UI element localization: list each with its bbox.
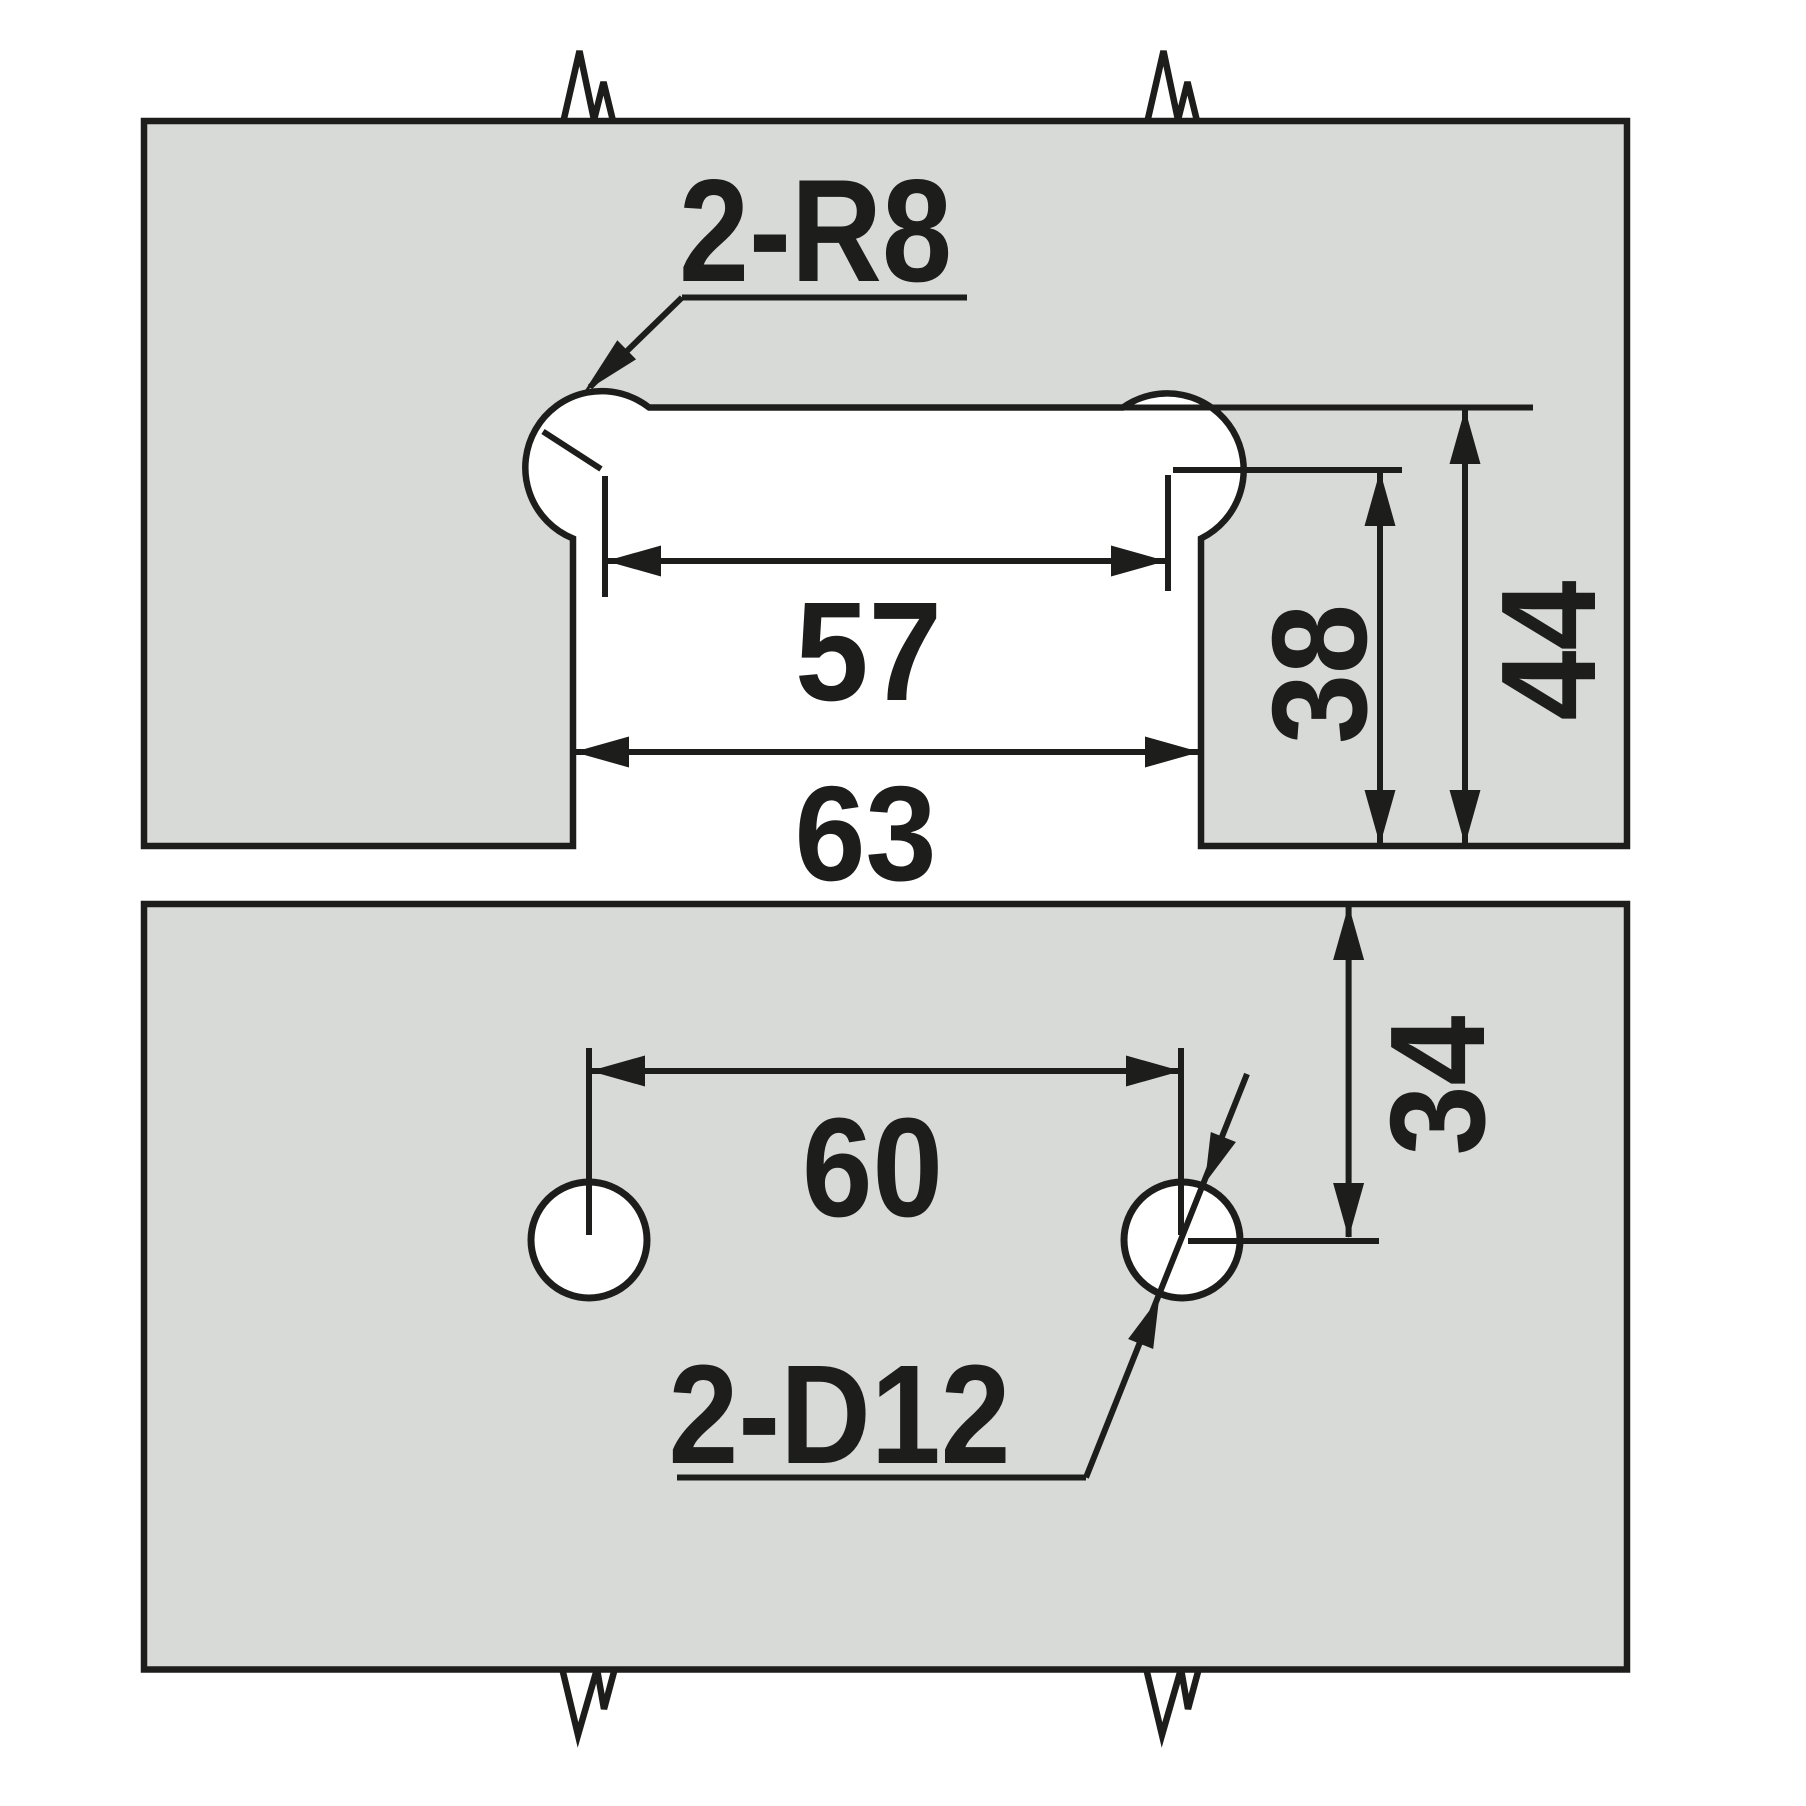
dimension line 57 bbox=[606, 558, 1166, 564]
extension tick 60 right bbox=[1178, 1048, 1184, 1235]
hole D12 right bbox=[1124, 1182, 1240, 1298]
svg-text:57: 57 bbox=[795, 572, 942, 730]
svg-text:34: 34 bbox=[1362, 1016, 1513, 1156]
lower panel bbox=[144, 904, 1627, 1670]
dimension line 60 bbox=[590, 1068, 1181, 1074]
hole D12 left bbox=[531, 1182, 647, 1298]
dimension line 44 bbox=[1462, 410, 1468, 844]
dimension line 63 bbox=[574, 749, 1200, 755]
dimension line 34 bbox=[1346, 906, 1352, 1237]
radius mark inside left slot lobe bbox=[543, 432, 601, 470]
svg-text:2-R8: 2-R8 bbox=[679, 149, 952, 312]
leader 2-D12 bbox=[677, 1475, 1086, 1481]
extension tick 57 right bbox=[1165, 475, 1171, 591]
svg-text:44: 44 bbox=[1473, 581, 1624, 721]
leader 2-R8 bbox=[682, 295, 967, 301]
extension line 38 top bbox=[1173, 467, 1402, 473]
upper panel with slot cutout bbox=[144, 121, 1627, 846]
break mark top left bbox=[563, 51, 614, 123]
svg-text:63: 63 bbox=[795, 758, 937, 909]
extension tick 60 left bbox=[586, 1048, 592, 1235]
extension line 34 bottom bbox=[1188, 1238, 1379, 1244]
svg-text:2-D12: 2-D12 bbox=[669, 1335, 1011, 1493]
break mark bottom left bbox=[562, 1668, 615, 1735]
svg-text:60: 60 bbox=[802, 1088, 943, 1246]
svg-text:38: 38 bbox=[1244, 604, 1395, 744]
dimension line 38 bbox=[1377, 472, 1383, 844]
extension line 44 top bbox=[1123, 405, 1533, 411]
break mark top right bbox=[1147, 51, 1198, 123]
break mark bottom right bbox=[1146, 1668, 1199, 1735]
extension tick 57 left bbox=[602, 476, 608, 597]
